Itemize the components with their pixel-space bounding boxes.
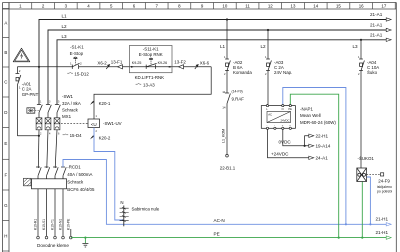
svg-text:17: 17: [381, 3, 386, 8]
svg-text:AC: AC: [268, 113, 272, 117]
svg-text:2: 2: [42, 3, 45, 8]
svg-text:L1: L1: [62, 14, 68, 19]
svg-text:13: 13: [291, 3, 296, 8]
svg-text:6: 6: [133, 3, 136, 8]
svg-text:22-B1.1: 22-B1.1: [220, 165, 236, 170]
svg-text:24-A1: 24-A1: [316, 156, 329, 161]
svg-text:(14-F9): (14-F9): [232, 90, 243, 94]
svg-text:Schrack: Schrack: [67, 179, 84, 184]
svg-text:K20-2: K20-2: [99, 136, 111, 141]
svg-text:K10-R1: K10-R1: [34, 219, 38, 230]
svg-text:X6-6: X6-6: [200, 61, 210, 66]
svg-text:5: 5: [110, 3, 113, 8]
svg-text:L2: L2: [62, 24, 68, 29]
svg-text:11: 11: [222, 90, 225, 94]
svg-text:D: D: [4, 110, 7, 115]
svg-text:N: N: [282, 107, 284, 111]
svg-text:K10-N1: K10-N1: [59, 219, 63, 230]
svg-text:2: 2: [40, 133, 42, 136]
svg-text:-SW1-UV: -SW1-UV: [103, 121, 122, 126]
svg-text:Dovodne kleme: Dovodne kleme: [37, 243, 69, 248]
svg-text:GP-PNT: GP-PNT: [22, 92, 39, 97]
svg-text:-SW1: -SW1: [62, 94, 74, 99]
svg-text:1: 1: [96, 115, 98, 118]
svg-text:13-A3: 13-A3: [143, 82, 155, 87]
svg-text:1: 1: [224, 55, 226, 59]
svg-text:2: 2: [19, 69, 21, 73]
svg-text:E-Stop RNK: E-Stop RNK: [139, 52, 163, 57]
svg-text:-S11-K1: -S11-K1: [143, 47, 159, 52]
svg-text:16: 16: [359, 3, 364, 8]
svg-text:<U: <U: [91, 122, 97, 127]
svg-text:10: 10: [222, 3, 227, 8]
svg-text:K10-PE: K10-PE: [66, 218, 70, 230]
svg-text:PE: PE: [214, 232, 220, 237]
svg-text:1: 1: [19, 86, 21, 90]
svg-text:6: 6: [58, 133, 60, 136]
svg-text:L3: L3: [353, 44, 359, 49]
svg-text:24VDC: 24VDC: [280, 119, 289, 123]
svg-text:21-A1: 21-A1: [370, 32, 383, 37]
svg-text:19-A14: 19-A14: [316, 144, 331, 149]
svg-text:1: 1: [70, 61, 72, 65]
svg-text:14: 14: [313, 3, 318, 8]
svg-text:Komanda: Komanda: [233, 70, 252, 75]
svg-text:0VDC: 0VDC: [279, 140, 292, 145]
svg-text:PE: PE: [288, 107, 292, 111]
svg-text:4: 4: [49, 133, 51, 136]
svg-text:14: 14: [222, 106, 226, 110]
svg-text:A: A: [4, 21, 7, 26]
svg-text:L1: L1: [220, 44, 226, 49]
svg-text:2: 2: [96, 130, 98, 133]
svg-text:X6-2: X6-2: [97, 61, 107, 66]
svg-text:E-Stop: E-Stop: [70, 51, 84, 56]
svg-text:-: -: [274, 125, 275, 128]
svg-text:13-F2: 13-F2: [174, 60, 186, 65]
svg-text:3: 3: [49, 101, 51, 104]
svg-text:Mean Well: Mean Well: [300, 113, 321, 118]
svg-text:24-F9: 24-F9: [378, 179, 390, 184]
svg-text:4: 4: [87, 3, 90, 8]
svg-text:22-H1: 22-H1: [316, 134, 329, 139]
svg-text:21-H1: 21-H1: [376, 217, 389, 222]
svg-text:3: 3: [65, 3, 68, 8]
svg-text:1: 1: [40, 101, 42, 104]
svg-text:K9-25: K9-25: [132, 61, 142, 65]
svg-text:po potrebi: po potrebi: [377, 189, 392, 193]
svg-text:KD.LIFT1-RNK: KD.LIFT1-RNK: [135, 75, 165, 80]
svg-text:5: 5: [58, 101, 60, 104]
svg-text:+24VDC: +24VDC: [271, 152, 289, 157]
svg-text:C: C: [4, 80, 7, 85]
svg-text:L1_KOM: L1_KOM: [221, 129, 225, 143]
svg-text:F: F: [4, 172, 7, 177]
svg-text:G: G: [4, 203, 8, 208]
svg-text:K20-1: K20-1: [99, 101, 111, 106]
svg-text:11: 11: [245, 3, 250, 8]
svg-text:-: -: [267, 125, 268, 128]
svg-text:2: 2: [80, 61, 82, 65]
svg-text:L: L: [266, 107, 268, 111]
svg-text:15-D12: 15-D12: [74, 71, 89, 76]
svg-text:Schrack: Schrack: [62, 108, 79, 113]
svg-text:H: H: [4, 233, 7, 238]
svg-text:K9-26: K9-26: [158, 61, 168, 65]
svg-text:15: 15: [336, 3, 341, 8]
svg-text:B: B: [4, 50, 7, 55]
svg-text:9.RAF: 9.RAF: [232, 97, 245, 102]
svg-text:-NAP1: -NAP1: [300, 106, 313, 111]
svg-text:K10-S1: K10-S1: [42, 219, 46, 230]
svg-text:21-A1: 21-A1: [370, 12, 383, 17]
svg-text:1: 1: [19, 3, 22, 8]
svg-text:21-H1: 21-H1: [376, 230, 389, 235]
svg-text:15-D4: 15-D4: [70, 133, 83, 138]
svg-text:MDR-60-24 (60W): MDR-60-24 (60W): [300, 120, 336, 125]
svg-text:21-A1: 21-A1: [370, 23, 383, 28]
svg-text:Sabirnica nule: Sabirnica nule: [132, 207, 160, 212]
svg-text:AC-N: AC-N: [214, 218, 225, 223]
svg-text:MX1: MX1: [62, 114, 72, 119]
svg-text:E: E: [4, 141, 7, 146]
svg-text:BCF6 40/4/05: BCF6 40/4/05: [67, 187, 95, 192]
svg-text:24V Nap.: 24V Nap.: [274, 70, 292, 75]
svg-text:7: 7: [155, 3, 158, 8]
svg-text:40A / 500mA: 40A / 500mA: [67, 172, 92, 177]
svg-text:-S1-K1: -S1-K1: [70, 45, 84, 50]
svg-text:N: N: [120, 200, 123, 205]
svg-text:32A / 8kA: 32A / 8kA: [62, 101, 81, 106]
svg-text:-ŠUKO1: -ŠUKO1: [358, 156, 375, 161]
svg-text:2: 2: [265, 72, 267, 76]
svg-text:8: 8: [178, 3, 181, 8]
svg-text:-RCD1: -RCD1: [67, 164, 81, 169]
svg-text:2: 2: [224, 72, 226, 76]
svg-text:13-F1: 13-F1: [111, 60, 123, 65]
svg-text:2: 2: [358, 72, 360, 76]
svg-text:1: 1: [358, 55, 360, 59]
svg-text:1: 1: [265, 55, 267, 59]
svg-text:9: 9: [201, 3, 204, 8]
svg-text:L3: L3: [62, 34, 68, 39]
svg-text:12: 12: [268, 3, 273, 8]
svg-text:L2: L2: [261, 44, 267, 49]
svg-text:Šuko: Šuko: [367, 70, 378, 75]
svg-text:K10-T1: K10-T1: [51, 219, 55, 230]
